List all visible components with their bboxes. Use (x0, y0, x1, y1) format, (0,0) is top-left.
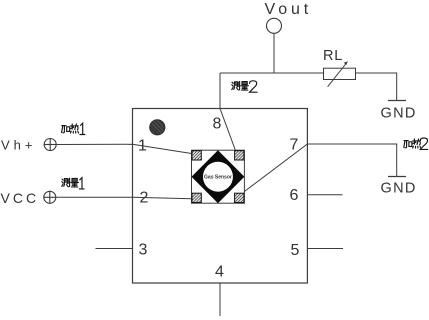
label 测量2 (232, 81, 257, 92)
svg-text:8: 8 (213, 116, 222, 133)
sensor electrode pad bottom-right (235, 193, 244, 202)
sensor electrode pad bottom-left (192, 193, 201, 202)
svg-text:GND: GND (381, 106, 417, 122)
ground GND1 (381, 101, 417, 122)
sensor diamond (192, 150, 245, 203)
svg-text:6: 6 (290, 187, 299, 204)
svg-text:2: 2 (140, 190, 149, 207)
terminal Vout (265, 1, 313, 33)
pin 4 stub (219, 283, 221, 316)
label 加热1 (62, 123, 85, 134)
sensor body outline (192, 150, 245, 203)
sensor electrode pad top-left (192, 151, 201, 160)
svg-text:Vh+: Vh+ (1, 137, 37, 152)
wire Vout to top rail (273, 33, 275, 73)
svg-text:1: 1 (138, 138, 147, 155)
sensor circle (203, 162, 233, 192)
svg-text:GND: GND (381, 181, 417, 197)
ground GND2 (381, 177, 417, 197)
wire pin 8 (220, 73, 236, 151)
sensor electrode pad top-right (235, 151, 244, 160)
resistor RL (323, 48, 356, 87)
wire pin 7 (243, 144, 397, 193)
terminal VCC (1, 190, 57, 206)
svg-text:4: 4 (215, 264, 224, 281)
svg-text:VCC: VCC (1, 190, 40, 206)
wire top rail (node 8 to RL) (220, 72, 324, 74)
label 测量1 (62, 178, 84, 189)
pin 6 stub (307, 194, 342, 196)
index dot (148, 117, 165, 136)
label 加热2 (404, 138, 428, 149)
pin 5 stub (307, 248, 343, 250)
pin 3 stub (96, 248, 133, 250)
gas sensor U2 (192, 150, 245, 203)
svg-text:3: 3 (139, 242, 148, 259)
terminal Vh+ (1, 137, 57, 152)
svg-text:Gas Sensor: Gas Sensor (204, 175, 232, 181)
svg-text:RL: RL (323, 48, 343, 64)
svg-text:Vout: Vout (265, 1, 313, 18)
wire pin 2 (56, 197, 191, 199)
svg-text:5: 5 (291, 242, 300, 259)
IC outline U1 (133, 109, 308, 284)
wire pin 1 (57, 144, 192, 153)
svg-text:7: 7 (290, 137, 299, 154)
wire RL to GND1 (356, 73, 397, 101)
